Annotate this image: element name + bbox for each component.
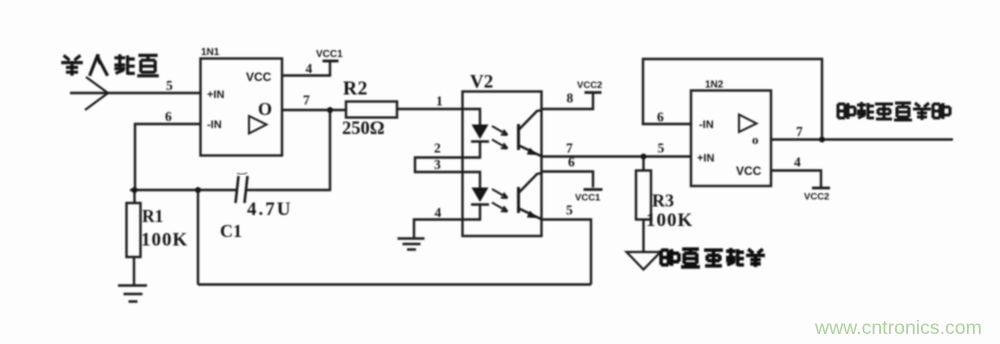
svg-text:R3: R3: [652, 191, 674, 211]
op-amp U2 triangle symbol: [739, 115, 757, 133]
phototransistor Q2 emitter: [519, 209, 542, 220]
wire R3 bottom lead: [642, 220, 644, 253]
LED D1 cathode bar: [471, 140, 489, 143]
wire U1 output pin7: [282, 109, 346, 111]
wire V2 pin7 to U2 +IN: [542, 155, 691, 157]
wire R2 to V2 pin1: [397, 108, 463, 110]
svg-text:+IN: +IN: [207, 89, 224, 101]
svg-text:4.7U: 4.7U: [247, 199, 292, 220]
svg-text:6: 6: [568, 155, 575, 170]
resistor R2 body: [346, 102, 397, 118]
svg-text:VCC: VCC: [736, 164, 762, 178]
wire pin6 to -IN node: [135, 124, 200, 190]
svg-text:8: 8: [567, 91, 574, 106]
svg-text:+IN: +IN: [697, 153, 714, 165]
text 输入信号 (input signal): [61, 54, 159, 76]
LED D2 cathode bar: [471, 203, 489, 206]
svg-text:1N2: 1N2: [705, 80, 724, 91]
junction node at R3 top: [641, 154, 647, 160]
svg-text:VCC2: VCC2: [577, 80, 602, 91]
Q1 emitter arrow: [528, 149, 537, 155]
phototransistor Q2 collector: [519, 173, 542, 193]
svg-text:VCC1: VCC1: [316, 49, 343, 60]
op-amp U1 box (1N1): [201, 59, 283, 156]
Q2 emitter arrow: [528, 212, 537, 218]
svg-text:100K: 100K: [646, 210, 693, 231]
svg-text:5: 5: [566, 203, 573, 218]
wire LED2 to pin4: [463, 205, 480, 220]
wire V2 pin6 to VCC1: [542, 172, 593, 188]
wire node drop to bottom rail: [197, 190, 199, 285]
text 隔离 电源地 (isolated power ground): [661, 248, 765, 267]
svg-text:2: 2: [434, 141, 441, 156]
svg-text:4: 4: [435, 205, 442, 220]
resistor R1 body: [127, 203, 141, 257]
svg-text:VCC1: VCC1: [575, 193, 601, 204]
phototransistor Q1 emitter: [519, 146, 542, 157]
junction node at C1 left: [195, 187, 201, 193]
svg-text:-IN: -IN: [699, 119, 714, 131]
power VCC1 bar (mid): [584, 188, 603, 191]
svg-text:R1: R1: [142, 206, 163, 226]
wire bottom rail: [198, 283, 591, 285]
junction node at U2 output: [819, 137, 825, 143]
svg-text:7: 7: [796, 124, 803, 139]
node rail (inverting node): [130, 189, 236, 191]
svg-text:6: 6: [657, 110, 664, 125]
svg-text:O: O: [258, 99, 272, 119]
ground below V2 pin4: [398, 239, 425, 250]
svg-text:o: o: [752, 132, 759, 147]
wire C1 right lead to output riser: [247, 110, 331, 190]
phototransistor Q1 collector: [519, 110, 542, 130]
junction node at R1 top: [132, 187, 138, 193]
op-amp U2 box (1N2): [691, 91, 771, 187]
svg-text:250Ω: 250Ω: [342, 119, 385, 139]
svg-text:4: 4: [794, 155, 801, 170]
artifact smudge below U1: [237, 173, 247, 175]
optocoupler V2 box: [463, 92, 542, 237]
svg-text:www.cntronics.com: www.cntronics.com: [814, 317, 982, 339]
capacitor C1 plates: [236, 176, 248, 203]
svg-text:VCC2: VCC2: [804, 192, 829, 203]
phototransistor Q2 base bar: [517, 187, 520, 213]
wire U2 pin6 feedback loop: [643, 59, 822, 140]
svg-text:1: 1: [436, 94, 443, 109]
resistor R3 body: [636, 171, 651, 220]
light arrows channel 2: [492, 189, 508, 198]
LED D1 triangle: [472, 125, 489, 140]
phototransistor Q1 base bar: [517, 124, 520, 150]
resistor R3 top lead: [642, 157, 644, 171]
svg-text:6: 6: [165, 109, 172, 124]
wire bottom rail riser to V2 pin5: [542, 220, 591, 285]
svg-text:R2: R2: [343, 79, 368, 100]
power VCC1 bar: [323, 60, 339, 63]
wire V2 pin4 to ground: [414, 220, 463, 238]
power VCC2 bar (right): [812, 187, 830, 190]
wire V2 pin3 internal to LED2: [463, 172, 480, 188]
power VCC2 bar (top): [585, 91, 602, 94]
svg-text:7: 7: [303, 93, 310, 108]
svg-text:100K: 100K: [141, 230, 188, 251]
light arrows channel 1: [492, 126, 508, 135]
op-amp U1 triangle symbol: [249, 116, 267, 134]
svg-text:-IN: -IN: [207, 119, 222, 131]
wire V2 pin8 to VCC2: [542, 94, 593, 110]
svg-text:4: 4: [306, 61, 313, 76]
ground below R1: [118, 286, 147, 302]
junction node at U1 output: [327, 107, 333, 113]
svg-text:3: 3: [434, 157, 441, 172]
wire LED1 to pin2: [463, 142, 480, 158]
svg-text:5: 5: [658, 141, 665, 156]
input arrowhead: [85, 77, 108, 110]
wire R1 top lead: [133, 190, 135, 203]
wire R1 bottom lead: [133, 257, 135, 285]
wire U2 output pin7: [771, 138, 953, 140]
svg-text:V2: V2: [470, 72, 493, 93]
svg-text:5: 5: [166, 78, 173, 93]
wire U1 pin4 to VCC1: [282, 62, 330, 76]
LED D2 triangle: [472, 188, 489, 203]
isolated ground triangle: [627, 252, 661, 270]
svg-text:VCC: VCC: [246, 70, 272, 84]
text 隔离信号输出 (isolated signal output): [838, 102, 950, 120]
wire U2 pin4 to VCC2: [771, 171, 821, 188]
svg-text:7: 7: [566, 141, 573, 156]
svg-text:C1: C1: [220, 221, 242, 241]
node IN+ input wire: [70, 92, 200, 94]
wire V2 pin1 internal to LED1: [463, 109, 480, 125]
wire pins 2-3 shorting loop: [415, 158, 463, 173]
svg-text:1N1: 1N1: [201, 47, 220, 58]
